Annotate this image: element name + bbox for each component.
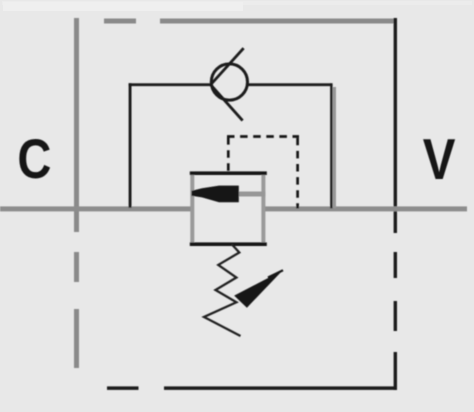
valve envelope left edge (dashed) — [74, 18, 79, 368]
relief valve body (box) — [190, 171, 267, 246]
pilot line vertical to main line (dashed) — [296, 138, 299, 209]
svg-text:C: C — [17, 127, 51, 190]
wire: main line V side — [265, 206, 467, 211]
valve envelope top edge (dashed) — [104, 19, 397, 24]
adjustment arrow — [234, 270, 283, 307]
spring (adjustable) — [204, 244, 241, 336]
valve envelope bottom edge (dashed) — [107, 386, 397, 390]
wire: check valve right branch — [330, 83, 336, 208]
wire: internal passage — [237, 192, 265, 197]
relief valve flow arrow — [192, 186, 239, 203]
svg-text:V: V — [423, 128, 456, 192]
wire: check valve top-left segment — [129, 83, 211, 86]
pilot line horizontal (dashed) — [227, 135, 299, 138]
check valve circle — [211, 64, 247, 100]
wire: check valve left branch — [129, 83, 132, 208]
pilot line vertical from box (dashed) — [227, 135, 230, 171]
wire: main line C side — [0, 206, 191, 211]
wire: check valve top-right segment — [247, 83, 332, 86]
check valve seat — [211, 48, 244, 120]
valve envelope right edge (dashed) — [394, 18, 397, 390]
